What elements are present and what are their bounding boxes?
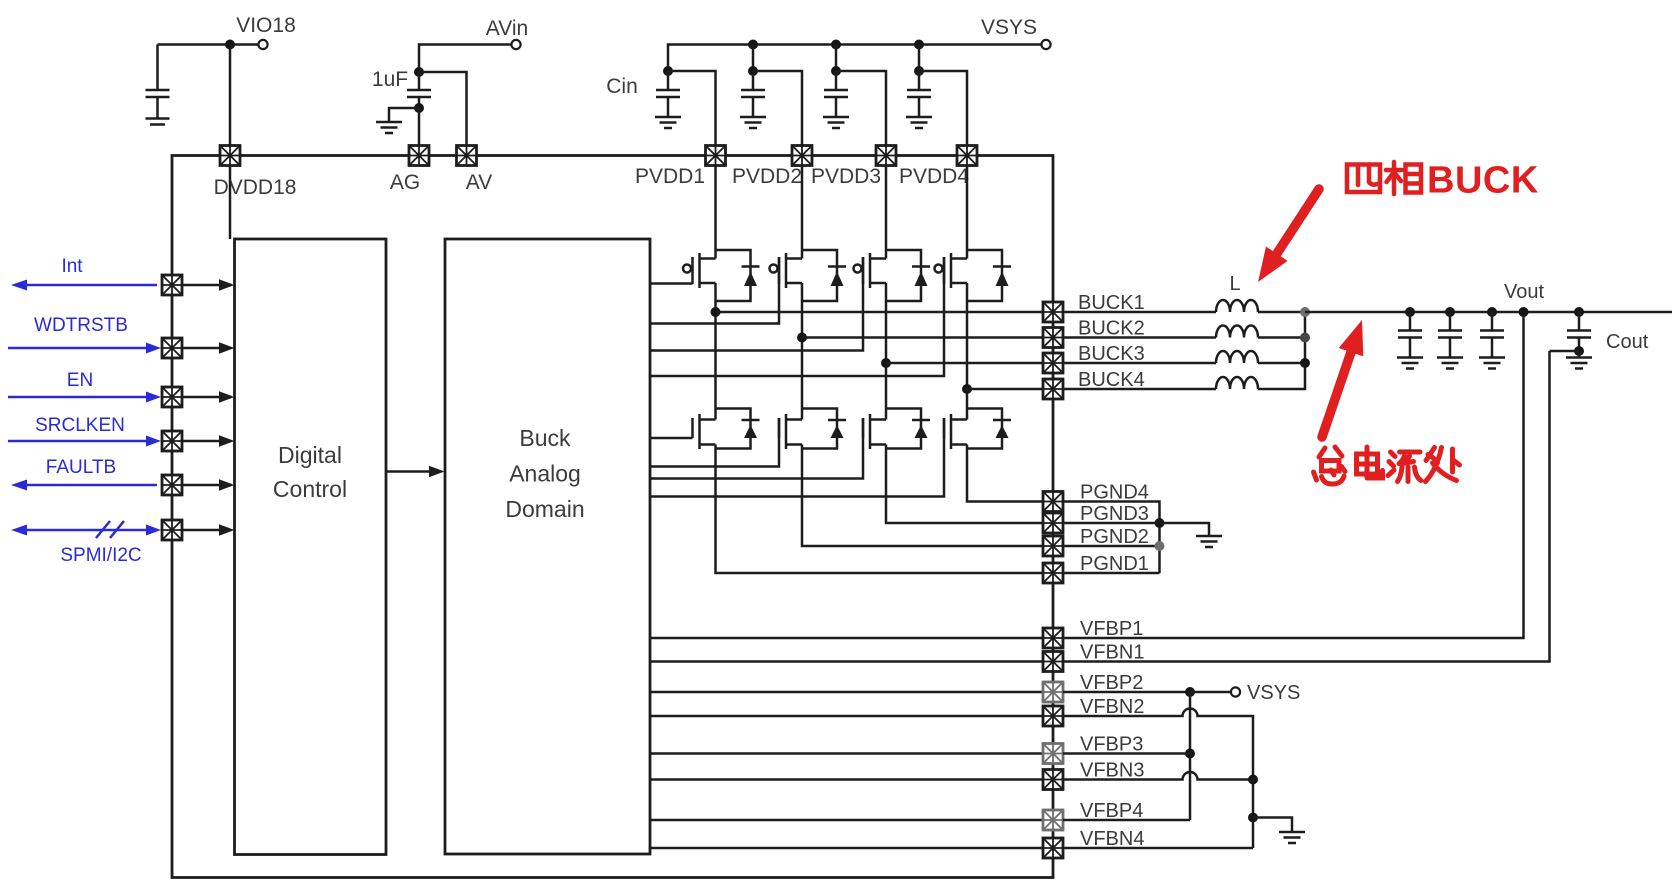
junction PGND3 [1155,518,1165,528]
svg-text:PVDD2: PVDD2 [732,165,802,188]
pin PVDD3 [811,146,896,189]
node VSYS input terminal [981,16,1051,49]
svg-text:VFBN1: VFBN1 [1080,642,1144,664]
Buck Analog Domain block [445,239,650,854]
wire L4 to output bus [1258,312,1305,389]
node SRCLKEN [35,415,125,436]
transistor Q2 high-side [770,250,847,301]
transistor Q7 low-side [863,409,930,450]
pin VFBN3 [1043,760,1144,790]
pin PVDD4 [899,146,977,189]
wire VFBP bus vertical [1189,692,1192,820]
wire to PVDD3 pin [836,71,886,146]
inductor L4 [1216,377,1258,389]
wire DVDD18 internal [229,166,232,240]
junction rail 3 [831,40,841,68]
annotation arrow to rail [1322,320,1363,437]
ground output cap 1 [1397,358,1423,369]
pin Int [162,275,182,295]
junction Cin3 [831,66,841,76]
inductor L3 [1216,351,1258,363]
wire EN blue arrow in [8,392,161,403]
wire Q1 gate feed [650,282,693,285]
svg-text:Cin: Cin [606,75,638,98]
capacitor Cin1 [656,71,680,116]
label Cin [606,75,638,98]
svg-text:PGND4: PGND4 [1080,482,1149,504]
wire Q8 source to PGND4 [967,445,1043,502]
junction VFBN3 [1248,775,1258,785]
pin PGND1 [1043,553,1149,583]
junction rail 2 [748,40,758,68]
svg-text:PGND1: PGND1 [1080,553,1149,575]
svg-text:PVDD3: PVDD3 [811,165,881,188]
svg-text:Buck: Buck [519,425,571,451]
node EN [67,370,93,391]
svg-text:Control: Control [273,476,347,502]
wire AVin to junction [419,45,511,68]
svg-text:L: L [1229,273,1240,295]
ground output cap 3 [1479,358,1505,369]
wire SPMI/I2C to Digital Control [182,524,235,535]
wire Q4 source to switch node 4 [966,283,969,389]
transistor Q6 low-side [779,409,846,450]
wire L1 to output bus [1258,311,1305,314]
wire to PVDD1 pin [668,71,716,146]
transistor Q5 low-side [693,409,760,450]
svg-text:BUCK: BUCK [1427,160,1539,202]
ground VFBN [1279,832,1305,843]
svg-text:1uF: 1uF [372,68,408,91]
wire VFBP4 external [1063,819,1190,822]
junction Cin1 [663,66,673,76]
wire PGND1 external [1063,572,1160,575]
ground output cap 2 [1437,358,1463,369]
inductor L2 [1216,326,1258,338]
svg-text:PGND3: PGND3 [1080,503,1149,525]
wire PVDD4 to Q4 drain [966,166,969,259]
svg-text:BUCK1: BUCK1 [1078,292,1145,314]
wire junction to ground [389,108,419,121]
wire VFBN to ground [1253,818,1292,832]
wire PVDD2 to Q2 drain [801,166,804,259]
capacitor on VIO18 [146,45,170,119]
junction VFBP2 [1185,687,1195,697]
annotation four-phase BUCK label [1347,162,1421,194]
ground Cin2 [740,117,766,128]
wire Q2 source to switch node 2 [801,283,804,338]
svg-text:VIO18: VIO18 [236,14,296,37]
junction output bus 2 [1300,333,1310,343]
wire to PVDD2 pin [753,71,802,146]
junction below 1uF [414,103,424,113]
junction Cin2 [748,66,758,76]
pin PGND4 [1043,482,1149,512]
pin AV [457,146,493,195]
node FAULTB [46,457,116,478]
pin PVDD1 [635,146,726,189]
svg-text:VFBP1: VFBP1 [1080,618,1143,640]
wire SPMI/I2C blue double arrow [11,521,161,538]
wire VFBP1 to Vout sense [1063,312,1524,638]
wire PGND4 external [1063,502,1160,574]
wire PVDD3 to Q3 drain [885,166,888,259]
wire switch node 3 to Q7 drain [885,363,888,420]
pin EN [162,387,182,407]
svg-text:AV: AV [466,171,492,194]
junction output bus 1 [1300,307,1310,317]
svg-text:EN: EN [67,370,93,391]
wire switch node 1 to BUCK1 pin [716,311,1044,314]
wire Q8 gate feed [650,418,944,497]
junction output cap 1 [1405,307,1415,317]
junction rail 4 [914,40,924,68]
wire VFBP1 internal [650,637,1043,640]
wire PVDD1 to Q1 drain [714,166,717,259]
arrow Digital Control to Buck Analog Domain [386,466,445,477]
wire VFBN4 internal [650,847,1043,850]
wire PGND to ground [1160,523,1210,535]
node Vout [1504,281,1544,317]
junction VFBN ground tap [1248,813,1258,823]
svg-text:VSYS: VSYS [1247,682,1300,704]
wire VFBN4 external [1063,847,1253,850]
wire VFBN3 internal [650,778,1043,781]
wire Q5 gate feed [650,437,693,440]
annotation total current label [1314,447,1460,484]
wire PGND3 external [1063,522,1160,525]
wire Cout to ground [1578,351,1581,357]
wire Q3 source to switch node 3 [885,283,888,363]
wire PGND2 external [1063,545,1160,548]
transistor Q8 low-side [944,409,1011,450]
node VIO18 terminal [236,14,296,49]
wire Int to Digital Control [182,279,235,290]
wire BUCK4 to inductor [1063,388,1216,391]
wire to PVDD4 pin [919,71,967,146]
capacitor Cin4 [907,71,931,116]
wire EN to Digital Control [182,391,235,402]
svg-text:AVin: AVin [486,17,528,40]
svg-text:Analog: Analog [509,461,581,487]
wire SRCLKEN to Digital Control [182,435,235,446]
junction output cap 2 [1445,307,1455,317]
svg-text:AG: AG [390,171,420,194]
svg-text:SRCLKEN: SRCLKEN [35,415,125,436]
wire VFBP2 internal [650,691,1043,694]
Digital Control block [235,239,387,855]
junction Cin4 [914,66,924,76]
transistor Q4 high-side [935,250,1012,301]
wire VFBN1 to Cout sense [1063,351,1550,662]
pin WDTRSTB [162,338,182,358]
wire FAULTB blue arrow out [11,480,157,491]
ground Cin3 [823,117,849,128]
svg-text:SPMI/I2C: SPMI/I2C [60,545,141,566]
wire BUCK1 to inductor [1063,311,1216,314]
pin VFBP3 [1043,734,1143,764]
svg-text:PVDD4: PVDD4 [899,165,969,188]
svg-text:PVDD1: PVDD1 [635,165,705,188]
svg-text:Int: Int [61,256,83,277]
svg-text:VSYS: VSYS [981,16,1037,39]
node WDTRSTB [34,315,128,336]
pin PGND2 [1043,526,1149,556]
pin BUCK1 [1043,292,1145,322]
pin SPMI/I2C [162,520,182,540]
inductor L1 [1216,273,1258,312]
wire WDTRSTB blue arrow in [8,343,161,354]
wire Q7 gate feed [650,418,863,479]
wire switch node 1 to Q5 drain [714,312,717,420]
ground PGND [1196,536,1222,547]
svg-text:DVDD18: DVDD18 [214,176,297,199]
svg-text:BUCK4: BUCK4 [1078,369,1145,391]
junction PGND2 [1155,541,1165,551]
wire AVin node to AV pin [419,72,467,146]
pin PVDD2 [732,146,812,189]
wire Vout rail [1305,311,1672,314]
wire Q6 gate feed [650,418,779,467]
pin BUCK4 [1043,369,1145,399]
ground near AG [376,122,402,133]
node AVin terminal [486,17,528,49]
junction switch node 2 [797,333,807,343]
wire Int blue arrow out [11,280,157,291]
capacitor Cin3 [824,71,848,116]
svg-text:Digital: Digital [278,442,342,468]
svg-text:Cout: Cout [1606,331,1649,353]
svg-text:BUCK3: BUCK3 [1078,343,1145,365]
wire Q5 source to PGND1 [716,445,1044,574]
svg-text:PGND2: PGND2 [1080,526,1149,548]
svg-text:VFBP2: VFBP2 [1080,672,1143,694]
junction switch node 1 [711,307,721,317]
wire switch node 4 to BUCK4 pin [967,388,1043,391]
wire VFBP3 external [1063,752,1190,755]
junction Cout top [1574,307,1584,317]
pin FAULTB [162,475,182,495]
svg-text:VFBN3: VFBN3 [1080,760,1144,782]
wire Cout bottom to sense [1550,350,1580,353]
wire Q6 source to PGND2 [802,445,1043,547]
wire L3 to output bus [1258,362,1305,365]
ground Cin4 [906,117,932,128]
pin VFBP4 [1043,800,1143,830]
pin VFBP2 [1043,672,1143,702]
junction switch node 3 [881,358,891,368]
pin VFBN1 [1043,642,1144,672]
pin BUCK2 [1043,318,1145,348]
wire SRCLKEN blue arrow in [8,436,161,447]
junction output cap 3 [1487,307,1497,317]
wire junction to AG pin [418,108,421,146]
wire switch node 2 to BUCK2 pin [802,336,1043,339]
svg-text:VFBP4: VFBP4 [1080,800,1143,822]
ground below VIO18 capacitor [146,119,170,125]
wire WDTRSTB to Digital Control [182,342,235,353]
wire Q7 source to PGND3 [886,445,1043,524]
wire VIO18 to DVDD18 pin [229,45,232,146]
wire Q4 gate feed [650,257,944,376]
capacitor Cout [1567,312,1649,353]
junction AVin node [414,67,424,77]
transistor Q3 high-side [854,250,931,301]
pin BUCK3 [1043,343,1145,373]
wire switch node 2 to Q6 drain [801,338,804,420]
ground Cout [1566,358,1592,369]
wire VIO18 rail [158,43,259,46]
junction VFBP3 [1185,749,1195,759]
junction VIO18 [225,40,235,50]
capacitor output 2 [1438,312,1462,357]
svg-text:Domain: Domain [505,496,584,522]
svg-text:BUCK2: BUCK2 [1078,318,1145,340]
wire VFBN3 external with hop [1063,772,1253,779]
node VSYS sense terminal [1231,682,1300,704]
junction output bus 3 [1300,358,1310,368]
pin PGND3 [1043,503,1149,533]
transistor Q1 high-side [683,250,760,301]
junction switch node 4 [962,384,972,394]
wire Q1 source to switch node 1 [714,283,717,312]
wire VFBP4 internal [650,819,1043,822]
pin SRCLKEN [162,431,182,451]
capacitor C 1uF [372,68,431,104]
wire Q2 gate feed [650,257,779,324]
pin VFBN4 [1043,828,1144,858]
svg-text:VFBP3: VFBP3 [1080,734,1143,756]
wire VFBN2 external with hop [1063,709,1253,848]
svg-text:VFBN4: VFBN4 [1080,828,1144,850]
chip outline [172,156,1053,878]
ground Cin1 [655,117,681,128]
capacitor output 1 [1398,312,1422,357]
capacitor output 3 [1480,312,1504,357]
wire Q3 gate feed [650,257,863,351]
wire FAULTB to Digital Control [182,479,235,490]
wire L2 to output bus [1258,336,1305,339]
wire VFBP2 to VSYS terminal [1190,691,1231,694]
wire BUCK2 to inductor [1063,336,1216,339]
pin VFBN2 [1043,696,1144,726]
wire switch node 3 to BUCK3 pin [886,362,1043,365]
svg-text:FAULTB: FAULTB [46,457,116,478]
node SPMI/I2C bus [60,545,141,566]
annotation arrow to inductor [1258,189,1319,282]
wire VFBP3 internal [650,752,1043,755]
svg-text:WDTRSTB: WDTRSTB [34,315,128,336]
svg-text:VFBN2: VFBN2 [1080,696,1144,718]
junction Cout bottom [1574,346,1584,356]
wire switch node 4 to Q8 drain [966,389,969,420]
wire VSYS input rail [668,45,1041,68]
node Int [61,256,83,277]
wire VFBP2 external [1063,691,1190,694]
pin VFBP1 [1043,618,1143,648]
wire VFBN1 internal [650,660,1043,663]
svg-text:Vout: Vout [1504,281,1544,303]
wire BUCK3 to inductor [1063,362,1216,365]
pin AG [390,146,429,195]
capacitor Cin2 [741,71,765,116]
wire VFBN2 internal [650,715,1043,718]
pin DVDD18 [214,146,297,200]
